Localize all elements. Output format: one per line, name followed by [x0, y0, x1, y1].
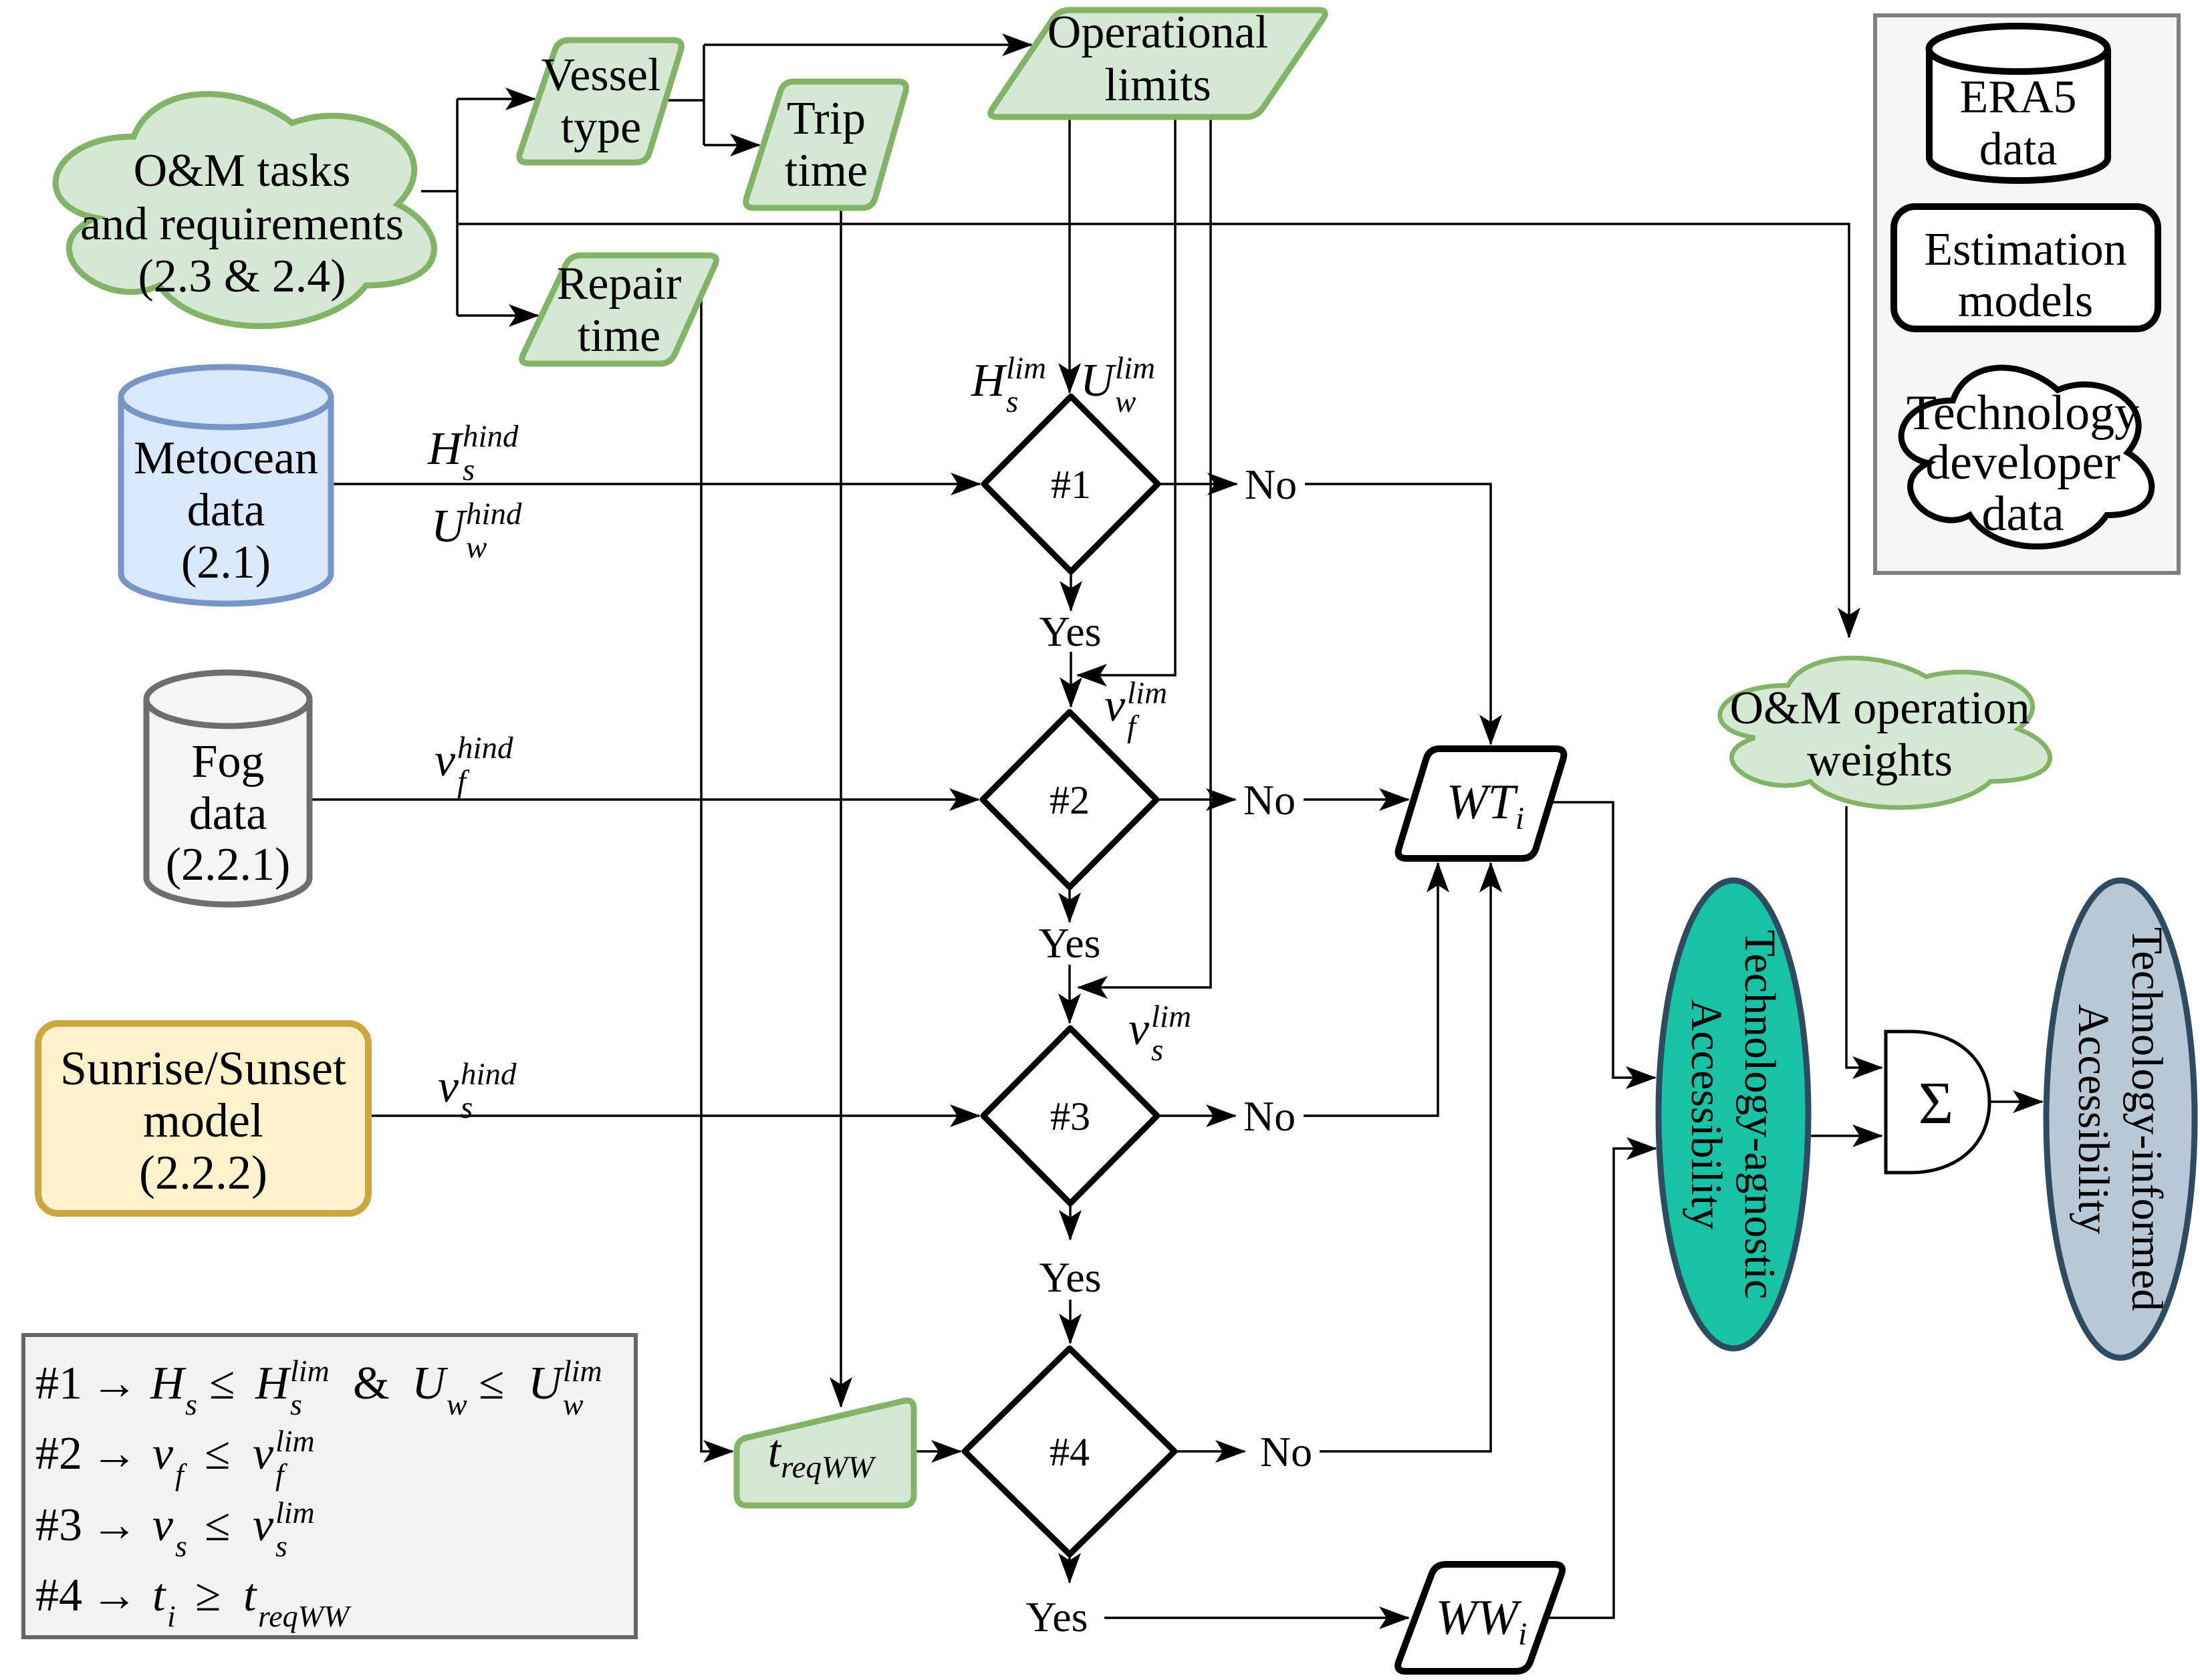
- parallelogram WW_i: [1398, 1564, 1562, 1671]
- wire Metocean data to decision 1: [331, 483, 980, 485]
- parallelogram Operational limits: [991, 7, 1325, 117]
- decision #3: [983, 1028, 1157, 1203]
- wire decision 1 Yes down: [1070, 572, 1072, 610]
- svg-text:lim: lim: [1006, 351, 1046, 386]
- svg-text:O&M operation: O&M operation: [1729, 683, 2030, 734]
- svg-text:s: s: [1151, 1033, 1163, 1068]
- svg-text:Yes: Yes: [1039, 1253, 1101, 1301]
- svg-text:s: s: [275, 1529, 287, 1563]
- svg-text:data: data: [1981, 487, 2064, 542]
- svg-text:v: v: [152, 1428, 174, 1479]
- wire to Trip time: [704, 144, 759, 146]
- wire No 1 to WT_i top: [1305, 484, 1491, 744]
- svg-text:U: U: [528, 1358, 565, 1409]
- svg-text:Metocean: Metocean: [134, 433, 318, 484]
- rounded box Sunrise/Sunset model: [38, 1024, 368, 1213]
- svg-text:data: data: [187, 485, 265, 536]
- svg-text:lim: lim: [275, 1495, 315, 1530]
- svg-text:→: →: [91, 1358, 138, 1409]
- svg-text:v: v: [1104, 680, 1126, 731]
- svg-text:s: s: [185, 1387, 197, 1421]
- svg-text:models: models: [1958, 275, 2093, 327]
- svg-text:#1: #1: [1051, 463, 1091, 507]
- svg-text:≤: ≤: [209, 1358, 235, 1409]
- wire Repair time down to t_reqWW: [701, 297, 733, 1451]
- wire decision 4 Yes down: [1068, 1554, 1071, 1582]
- svg-text:H: H: [427, 423, 464, 475]
- svg-text:t: t: [243, 1570, 257, 1621]
- svg-text:(2.2.2): (2.2.2): [139, 1146, 267, 1199]
- svg-text:s: s: [290, 1387, 302, 1421]
- wire Operational limits to decision 3 feeder: [1078, 117, 1211, 987]
- wire decision 2 No: [1156, 798, 1235, 801]
- legend row 1: [35, 1354, 602, 1421]
- legend row 2: [35, 1424, 315, 1491]
- wire long line to O&M operation weights: [457, 224, 1849, 637]
- svg-text:(2.3 & 2.4): (2.3 & 2.4): [138, 251, 346, 302]
- wire decision 2 Yes down: [1068, 887, 1071, 922]
- decision #2: [983, 712, 1156, 887]
- svg-text:No: No: [1245, 461, 1297, 508]
- svg-text:Vessel: Vessel: [541, 49, 661, 101]
- wire Technology-agnostic to Sigma: [1808, 1134, 1882, 1137]
- wire O&M weights cloud to Sigma: [1846, 806, 1882, 1068]
- wire riser to Repair time: [457, 314, 538, 317]
- svg-text:Σ: Σ: [1919, 1070, 1953, 1136]
- svg-text:≤: ≤: [205, 1499, 230, 1551]
- label v_s^hind: [438, 1057, 517, 1125]
- rounded box Estimation models: [1894, 207, 2158, 329]
- wire t_reqWW to decision 4: [914, 1450, 961, 1453]
- svg-text:U: U: [1080, 355, 1117, 406]
- cloud O&M tasks and requirements: [55, 94, 434, 326]
- wire Sigma to Technology-informed ellipse: [1989, 1100, 2042, 1103]
- svg-text:WWi: WWi: [1436, 1590, 1527, 1652]
- wire riser vertical: [456, 99, 459, 316]
- decision #1: [984, 396, 1158, 572]
- svg-text:Technology: Technology: [1907, 386, 2139, 441]
- svg-text:v: v: [438, 1061, 459, 1112]
- svg-text:w: w: [466, 530, 487, 565]
- svg-text:(2.1): (2.1): [181, 537, 271, 588]
- wire WT_i to Technology-agnostic ellipse: [1552, 802, 1655, 1078]
- svg-text:hind: hind: [457, 731, 513, 765]
- svg-text:v: v: [253, 1499, 274, 1551]
- svg-text:Fog: Fog: [192, 736, 265, 788]
- wire No 4 to WT_i bottom: [1320, 863, 1491, 1451]
- legend box: [23, 1335, 636, 1637]
- wire junction vertical at 1053: [703, 45, 705, 145]
- svg-text:lim: lim: [563, 1354, 602, 1388]
- wire Yes to decision 3: [1068, 965, 1071, 1023]
- svg-text:(2.2.1): (2.2.1): [166, 839, 291, 890]
- svg-text:lim: lim: [1127, 676, 1167, 711]
- label v_s^lim: [1128, 999, 1191, 1068]
- svg-text:data: data: [189, 788, 267, 840]
- svg-text:lim: lim: [1115, 351, 1155, 386]
- label v_f^lim: [1104, 676, 1167, 744]
- svg-text:developer: developer: [1925, 435, 2120, 490]
- svg-text:≥: ≥: [195, 1570, 221, 1621]
- svg-text:w: w: [563, 1387, 584, 1421]
- cylinder ERA5 data: [1929, 26, 2108, 181]
- label U_w^hind: [431, 497, 522, 565]
- svg-text:type: type: [561, 102, 642, 153]
- svg-text:data: data: [1979, 124, 2058, 175]
- wire Sunrise model to decision 3: [370, 1114, 979, 1117]
- svg-text:limits: limits: [1104, 59, 1211, 111]
- wire to Operational limits: [704, 43, 1031, 46]
- svg-text:U: U: [412, 1358, 449, 1409]
- wire WW_i to Technology-agnostic ellipse: [1546, 1149, 1656, 1618]
- parallelogram WT_i: [1398, 749, 1564, 858]
- cloud O&M operation weights: [1720, 658, 2050, 808]
- svg-text:s: s: [461, 1090, 473, 1125]
- svg-text:v: v: [1128, 1003, 1150, 1055]
- svg-text:ERA5: ERA5: [1960, 72, 2077, 123]
- svg-text:model: model: [143, 1094, 263, 1147]
- summation operator Sigma: [1886, 1032, 1989, 1173]
- ellipse Technology-agnostic Accessibility: [1659, 880, 1808, 1348]
- svg-text:and requirements: and requirements: [80, 199, 404, 250]
- svg-text:v: v: [435, 735, 456, 786]
- wire Yes to decision 4: [1069, 1300, 1072, 1343]
- svg-text:time: time: [578, 310, 660, 362]
- svg-text:Sunrise/Sunset: Sunrise/Sunset: [60, 1042, 346, 1095]
- svg-text:→: →: [91, 1499, 138, 1551]
- svg-text:#3: #3: [1050, 1094, 1090, 1138]
- svg-text:s: s: [463, 453, 475, 487]
- svg-text:H: H: [255, 1358, 291, 1409]
- label H_s^hind: [427, 419, 519, 487]
- wire Trip time down to t_reqWW: [840, 208, 842, 1407]
- svg-text:w: w: [1115, 384, 1136, 419]
- svg-text:reqWW: reqWW: [258, 1599, 352, 1633]
- wire O&M tasks cloud to riser: [421, 190, 457, 193]
- svg-text:weights: weights: [1807, 735, 1953, 786]
- svg-text:#4: #4: [35, 1570, 82, 1621]
- wire Operational limits to decision 2 feeder: [1078, 117, 1175, 675]
- legend row 3: [35, 1495, 315, 1563]
- panel ERA5 / estimation / technology developer: [1875, 15, 2179, 573]
- svg-text:i: i: [167, 1599, 176, 1633]
- wire No 2 to WT_i left: [1304, 798, 1409, 801]
- svg-text:hind: hind: [466, 497, 522, 531]
- label H_s^lim: [971, 351, 1046, 419]
- svg-text:#1: #1: [35, 1358, 82, 1409]
- svg-text:Yes: Yes: [1038, 919, 1100, 967]
- wire decision 3 Yes down: [1069, 1203, 1072, 1239]
- decision #4: [965, 1348, 1175, 1554]
- wire Yes to decision 2: [1070, 652, 1072, 707]
- label v_f^hind: [435, 731, 513, 799]
- svg-text:t: t: [152, 1570, 166, 1621]
- label U_w^lim: [1080, 351, 1155, 419]
- svg-text:v: v: [152, 1499, 174, 1551]
- svg-text:No: No: [1243, 776, 1296, 824]
- cylinder Metocean data: [121, 367, 331, 604]
- cloud Technology developer data: [1901, 368, 2152, 546]
- wire Vessel type to junction: [665, 99, 704, 102]
- svg-text:v: v: [253, 1428, 274, 1479]
- legend row 4: [35, 1570, 352, 1633]
- svg-text:hind: hind: [463, 419, 519, 454]
- wire decision 4 No: [1175, 1450, 1245, 1453]
- cylinder Fog data: [146, 673, 310, 905]
- svg-text:Trip: Trip: [787, 93, 866, 144]
- ellipse Technology-informed Accessibility: [2046, 880, 2195, 1358]
- card t_reqWW: [737, 1401, 914, 1506]
- svg-text:lim: lim: [290, 1354, 330, 1388]
- svg-text:#2: #2: [35, 1428, 82, 1479]
- svg-text:O&M tasks: O&M tasks: [134, 145, 351, 197]
- svg-text:≤: ≤: [205, 1428, 230, 1479]
- svg-text:Yes: Yes: [1039, 608, 1101, 655]
- svg-text:Operational: Operational: [1048, 7, 1268, 58]
- svg-text:#2: #2: [1050, 778, 1090, 822]
- svg-text:Repair: Repair: [557, 258, 682, 310]
- svg-text:w: w: [447, 1387, 467, 1421]
- svg-text:Yes: Yes: [1025, 1593, 1088, 1641]
- wire No 3 to WT_i bottom: [1304, 863, 1438, 1116]
- parallelogram Vessel type: [519, 40, 681, 162]
- wire riser to Vessel type: [457, 98, 535, 100]
- wire Fog data to decision 2: [310, 798, 979, 801]
- svg-text:time: time: [785, 145, 868, 197]
- wire Operational limits to decision 1: [1068, 117, 1071, 392]
- svg-text:Estimation: Estimation: [1924, 224, 2126, 275]
- parallelogram Trip time: [746, 82, 906, 208]
- svg-text:lim: lim: [275, 1424, 315, 1458]
- svg-text:lim: lim: [1151, 999, 1191, 1034]
- svg-text:#4: #4: [1050, 1430, 1090, 1474]
- svg-text:→: →: [91, 1428, 138, 1479]
- svg-text:&: &: [353, 1358, 389, 1409]
- svg-text:s: s: [1006, 384, 1018, 419]
- wire decision 3 No: [1157, 1114, 1235, 1117]
- svg-text:s: s: [175, 1529, 187, 1563]
- svg-text:H: H: [150, 1358, 187, 1409]
- svg-text:→: →: [91, 1570, 138, 1621]
- svg-text:No: No: [1260, 1428, 1312, 1475]
- svg-text:#3: #3: [35, 1499, 82, 1551]
- wire decision 4 Yes to WW_i: [1104, 1616, 1409, 1619]
- svg-text:WTi: WTi: [1447, 775, 1524, 836]
- svg-text:H: H: [971, 355, 1007, 406]
- svg-text:≤: ≤: [479, 1358, 504, 1409]
- parallelogram Repair time: [522, 255, 717, 364]
- svg-text:hind: hind: [461, 1057, 517, 1092]
- svg-text:U: U: [431, 501, 468, 552]
- wire decision 1 No: [1158, 483, 1237, 485]
- svg-text:No: No: [1243, 1092, 1296, 1140]
